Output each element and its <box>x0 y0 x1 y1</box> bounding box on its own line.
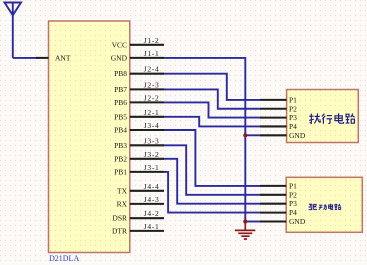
pin GND lower stub <box>260 220 286 222</box>
svg-text:J3-4: J3-4 <box>144 121 160 130</box>
wire PB4 to P1 lower <box>164 130 260 186</box>
路 <box>335 204 341 210</box>
pin P2 upper stub <box>260 108 287 110</box>
wire GND net rail <box>164 58 245 222</box>
wire antenna to ANT pin <box>13 57 36 59</box>
wire GND branch to upper block <box>245 134 260 136</box>
svg-text:J3-3: J3-3 <box>144 136 160 145</box>
ground symbol <box>235 222 256 240</box>
pin P4 lower stub <box>260 212 286 214</box>
svg-text:P1: P1 <box>289 95 297 104</box>
svg-text:P3: P3 <box>289 113 297 122</box>
junction dot lower GND <box>243 219 247 223</box>
text 驱动电路 (drawn glyphs) <box>309 204 341 210</box>
antenna E1 <box>5 3 22 58</box>
pin PB6 stub <box>130 101 164 103</box>
svg-text:GND: GND <box>289 217 306 226</box>
驱 <box>309 204 317 209</box>
svg-text:J2-4: J2-4 <box>144 65 160 74</box>
text 执行电路 (drawn glyphs) <box>309 113 354 123</box>
pin VCC stub <box>130 44 164 46</box>
svg-text:D21DLA: D21DLA <box>49 254 79 263</box>
svg-text:P1: P1 <box>289 181 297 190</box>
pin TX stub <box>130 190 164 192</box>
pin PB4 stub <box>130 129 164 131</box>
wire PB3 to P2 lower <box>164 145 260 195</box>
电 <box>329 204 334 210</box>
svg-text:DTR: DTR <box>112 226 127 235</box>
pin GND upper stub <box>260 134 287 136</box>
行 <box>322 114 332 124</box>
svg-text:J4-1: J4-1 <box>144 222 160 231</box>
svg-text:J1-1: J1-1 <box>144 49 160 58</box>
IC pin name labels <box>111 40 128 235</box>
svg-text:P4: P4 <box>289 208 297 217</box>
svg-text:PB1: PB1 <box>114 167 127 176</box>
svg-text:PB3: PB3 <box>114 141 127 150</box>
svg-text:ANT: ANT <box>55 53 71 62</box>
wire PB8 to P1 upper <box>164 74 260 100</box>
wire PB2 to P3 lower <box>164 159 260 204</box>
pin DSR stub <box>130 217 164 219</box>
svg-text:PB8: PB8 <box>114 69 127 78</box>
svg-text:J4-4: J4-4 <box>144 182 160 191</box>
pin GND stub <box>130 57 164 59</box>
svg-text:P3: P3 <box>289 199 297 208</box>
pin PB1 stub <box>130 171 164 173</box>
svg-text:PB2: PB2 <box>114 154 127 163</box>
svg-text:J3-1: J3-1 <box>144 163 160 172</box>
svg-text:J3-2: J3-2 <box>144 150 160 159</box>
pin PB5 stub <box>130 116 164 118</box>
执 <box>309 113 320 123</box>
pin PB2 stub <box>130 158 164 160</box>
svg-text:PB6: PB6 <box>114 98 127 107</box>
pin P3 lower stub <box>260 203 286 205</box>
pin RX stub <box>130 203 164 205</box>
block 驱动电路 body <box>286 177 362 232</box>
svg-text:J1-2: J1-2 <box>144 36 160 45</box>
svg-text:PB4: PB4 <box>114 126 127 135</box>
svg-text:TX: TX <box>117 186 128 195</box>
block 执行电路 body <box>287 90 359 143</box>
svg-text:J2-3: J2-3 <box>144 80 160 89</box>
pin P1 upper stub <box>260 99 287 101</box>
upper block pin stubs <box>260 100 287 135</box>
svg-text:PB5: PB5 <box>114 112 127 121</box>
svg-text:P2: P2 <box>289 190 297 199</box>
svg-text:VCC: VCC <box>112 40 127 49</box>
upper block pin labels <box>289 95 306 139</box>
lower block pin labels <box>289 181 306 226</box>
pin ANT stub <box>36 57 49 59</box>
svg-text:DSR: DSR <box>112 214 127 223</box>
junction dot upper GND <box>243 133 247 137</box>
电 <box>335 113 344 123</box>
pin P3 upper stub <box>260 117 287 119</box>
动 <box>319 204 327 210</box>
路 <box>346 114 355 124</box>
lower block pin stubs <box>260 186 286 222</box>
svg-text:J4-2: J4-2 <box>144 209 160 218</box>
wire PB6 to P3 upper <box>164 102 260 117</box>
wire PB7 to P2 upper <box>164 89 260 108</box>
pin PB7 stub <box>130 88 164 90</box>
wires blue <box>164 58 260 222</box>
svg-text:RX: RX <box>117 199 128 208</box>
pin P4 upper stub <box>260 125 287 127</box>
svg-text:J2-2: J2-2 <box>144 93 160 102</box>
IC pin stubs right side <box>130 45 164 231</box>
pin P2 lower stub <box>260 194 286 196</box>
svg-text:P4: P4 <box>289 122 297 131</box>
IC U1 D21DLA body <box>49 21 130 253</box>
pin PB8 stub <box>130 73 164 75</box>
wire PB5 to P4 upper <box>164 117 260 127</box>
svg-text:P2: P2 <box>289 104 297 113</box>
wire PB1 to P4 lower <box>164 172 260 213</box>
svg-text:J2-1: J2-1 <box>144 108 160 117</box>
svg-text:GND: GND <box>289 131 306 140</box>
svg-text:J4-3: J4-3 <box>144 195 160 204</box>
svg-text:GND: GND <box>111 53 128 62</box>
svg-text:PB7: PB7 <box>114 85 127 94</box>
pin PB3 stub <box>130 144 164 146</box>
J connector labels <box>144 36 160 231</box>
pin P1 lower stub <box>260 185 286 187</box>
wire GND branch to lower block <box>245 221 260 223</box>
pin DTR stub <box>130 230 164 232</box>
